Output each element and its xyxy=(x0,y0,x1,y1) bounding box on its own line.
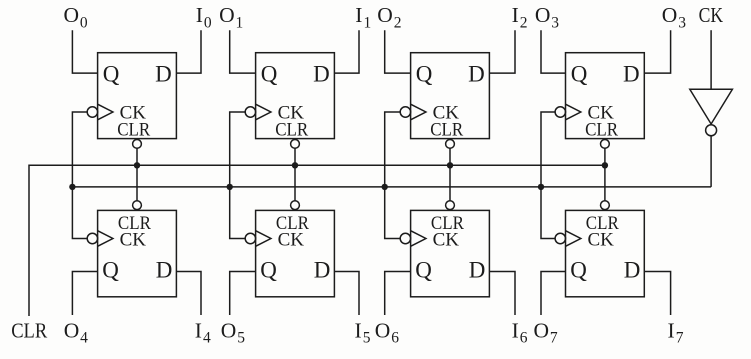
net label I1 (top) xyxy=(355,3,371,31)
svg-text:3: 3 xyxy=(551,15,559,32)
net label O5 (bottom) xyxy=(221,318,245,346)
junction node CK bus / column 2 xyxy=(382,184,388,190)
wire D pin of U6 to net I5 xyxy=(334,272,359,316)
svg-text:CLR: CLR xyxy=(117,119,150,140)
CK inversion bubble of U6 xyxy=(245,233,255,243)
flip-flop U8 body xyxy=(566,210,645,296)
wire net O2 to Q pin of U3 xyxy=(385,30,411,73)
CLR inversion bubble of U5 xyxy=(133,201,142,210)
CK inversion bubble of U1 xyxy=(87,107,97,117)
svg-text:Q: Q xyxy=(571,61,588,86)
svg-text:3: 3 xyxy=(678,15,686,32)
svg-text:6: 6 xyxy=(520,330,528,347)
svg-text:7: 7 xyxy=(676,330,684,347)
net label I7 (bottom) xyxy=(668,318,684,346)
svg-text:D: D xyxy=(469,257,486,282)
svg-text:I: I xyxy=(195,318,202,342)
wire Q pin of U7 to net O6 xyxy=(385,272,411,316)
svg-text:5: 5 xyxy=(237,330,245,347)
wire D pin of U8 to net I7 xyxy=(644,272,670,316)
svg-text:O: O xyxy=(662,3,678,27)
svg-text:2: 2 xyxy=(520,15,528,32)
junction node CLR bus / column 2 xyxy=(447,162,453,168)
svg-text:Q: Q xyxy=(570,257,587,282)
CK inversion bubble of U3 xyxy=(400,107,410,117)
svg-text:D: D xyxy=(624,257,641,282)
CK inversion bubble of U5 xyxy=(87,233,97,243)
CK inversion bubble of U2 xyxy=(245,107,255,117)
svg-text:5: 5 xyxy=(363,330,371,347)
wire CK column 0 (bus to CK pins of U1/U5) xyxy=(72,112,87,239)
svg-text:O: O xyxy=(534,318,550,342)
clock wedge of U1 xyxy=(98,104,113,120)
svg-text:I: I xyxy=(512,3,519,27)
CK inversion bubble of U4 xyxy=(555,107,565,117)
wire CK column 2 (bus to CK pins of U3/U7) xyxy=(385,112,401,239)
wire CK label to inverter U9 input xyxy=(710,30,712,89)
net label O0 (top) xyxy=(64,3,88,31)
svg-text:D: D xyxy=(623,61,640,86)
clock wedge of U4 xyxy=(566,104,581,120)
wire CLR column 3 (bus to CLR pins of U4/U8) xyxy=(604,148,606,201)
junction node CK bus / column 0 xyxy=(69,184,75,190)
net label I4 (bottom) xyxy=(195,318,211,346)
wire D pin of U1 to net I0 xyxy=(176,30,201,73)
net label O4 (bottom) xyxy=(64,318,88,346)
svg-text:0: 0 xyxy=(204,15,212,32)
CK inversion bubble of U8 xyxy=(555,233,565,243)
junction node CK bus / column 3 xyxy=(538,184,544,190)
svg-text:I: I xyxy=(512,318,519,342)
CLR inversion bubble of U4 xyxy=(601,140,610,149)
svg-text:O: O xyxy=(64,318,80,342)
wire Q pin of U8 to net O7 xyxy=(541,272,566,316)
clock wedge of U6 xyxy=(256,231,271,247)
svg-text:O: O xyxy=(221,318,237,342)
svg-text:CK: CK xyxy=(699,3,724,27)
net label O7 (bottom) xyxy=(534,318,558,346)
net label I5 (bottom) xyxy=(355,318,371,346)
net label I2 (top) xyxy=(512,3,528,31)
net label O6 (bottom) xyxy=(375,318,399,346)
inverter U9 triangle xyxy=(690,89,733,124)
svg-text:4: 4 xyxy=(80,330,88,347)
clock wedge of U7 xyxy=(411,231,426,247)
flip-flop U2 body xyxy=(256,53,335,139)
flip-flop U5 body xyxy=(98,210,177,296)
svg-text:D: D xyxy=(156,257,173,282)
wire CLR column 2 (bus to CLR pins of U3/U7) xyxy=(449,148,451,201)
net label O3 (top) xyxy=(662,3,686,31)
svg-text:CLR: CLR xyxy=(11,318,48,342)
net label I0 (top) xyxy=(196,3,212,31)
svg-text:Q: Q xyxy=(103,61,120,86)
wire D pin of U4 to net O3 xyxy=(644,30,670,73)
wire CK bus (net CKI) xyxy=(72,186,711,188)
svg-text:D: D xyxy=(155,61,172,86)
wire D pin of U7 to net I6 xyxy=(489,272,515,316)
svg-text:I: I xyxy=(355,318,362,342)
svg-text:CLR: CLR xyxy=(275,119,308,140)
wire Q pin of U6 to net O5 xyxy=(230,272,256,316)
svg-text:CK: CK xyxy=(588,230,615,251)
junction node CLR bus / column 3 xyxy=(602,162,608,168)
wire CLR bus (net CLR) xyxy=(29,165,605,316)
wire net O1 to Q pin of U2 xyxy=(230,30,256,73)
svg-text:O: O xyxy=(375,318,391,342)
svg-text:1: 1 xyxy=(236,15,244,32)
wire CK column 1 (bus to CK pins of U2/U6) xyxy=(230,112,246,239)
svg-text:CK: CK xyxy=(278,230,305,251)
junction node CK bus / column 1 xyxy=(227,184,233,190)
svg-text:CK: CK xyxy=(120,230,147,251)
flip-flop U3 body xyxy=(411,53,490,139)
flip-flop U4 body xyxy=(566,53,645,139)
CLR inversion bubble of U6 xyxy=(291,201,300,210)
svg-text:Q: Q xyxy=(102,257,119,282)
svg-text:I: I xyxy=(355,3,362,27)
flip-flop U6 body xyxy=(256,210,335,296)
wire D pin of U2 to net I1 xyxy=(334,30,359,73)
junction node CLR bus / column 0 xyxy=(134,162,140,168)
junction node CLR bus / column 1 xyxy=(292,162,298,168)
svg-text:CLR: CLR xyxy=(430,119,463,140)
svg-text:D: D xyxy=(313,61,330,86)
svg-text:Q: Q xyxy=(260,257,277,282)
CLR inversion bubble of U3 xyxy=(446,140,455,149)
wire net O3 to Q pin of U4 xyxy=(541,30,566,73)
wire CLR column 1 (bus to CLR pins of U2/U6) xyxy=(294,148,296,201)
svg-text:Q: Q xyxy=(416,61,433,86)
wire Q pin of U5 to net O4 xyxy=(72,272,97,316)
wire net O0 to Q pin of U1 xyxy=(72,30,97,73)
svg-text:1: 1 xyxy=(364,15,372,32)
svg-text:I: I xyxy=(196,3,203,27)
svg-text:I: I xyxy=(668,318,675,342)
svg-text:CK: CK xyxy=(433,230,460,251)
inverter U9 output bubble xyxy=(706,125,717,136)
svg-text:6: 6 xyxy=(391,330,399,347)
flip-flop U7 body xyxy=(411,210,490,296)
svg-text:0: 0 xyxy=(80,15,88,32)
svg-text:Q: Q xyxy=(261,61,278,86)
CLR inversion bubble of U1 xyxy=(133,140,142,149)
svg-text:4: 4 xyxy=(203,330,211,347)
svg-text:7: 7 xyxy=(550,330,558,347)
svg-text:O: O xyxy=(64,3,80,27)
net label I6 (bottom) xyxy=(512,318,528,346)
wire inverter U9 output to CK bus xyxy=(710,136,712,187)
clock wedge of U2 xyxy=(256,104,271,120)
net label O1 (top) xyxy=(219,3,243,31)
CLR inversion bubble of U2 xyxy=(291,140,300,149)
clock wedge of U3 xyxy=(411,104,426,120)
svg-text:Q: Q xyxy=(415,257,432,282)
wire D pin of U5 to net I4 xyxy=(176,272,201,316)
CLR inversion bubble of U7 xyxy=(446,201,455,210)
svg-text:O: O xyxy=(219,3,235,27)
svg-text:CLR: CLR xyxy=(585,119,618,140)
svg-text:D: D xyxy=(314,257,331,282)
net label O2 (top) xyxy=(377,3,401,31)
svg-text:O: O xyxy=(377,3,393,27)
flip-flop U1 body xyxy=(98,53,177,139)
svg-text:D: D xyxy=(468,61,485,86)
svg-text:2: 2 xyxy=(394,15,402,32)
clock wedge of U5 xyxy=(98,231,113,247)
clock wedge of U8 xyxy=(566,231,581,247)
CK inversion bubble of U7 xyxy=(400,233,410,243)
CLR inversion bubble of U8 xyxy=(601,201,610,210)
wire CK column 3 (bus to CK pins of U4/U8) xyxy=(541,112,555,239)
svg-text:O: O xyxy=(535,3,551,27)
wire CLR column 0 (bus to CLR pins of U1/U5) xyxy=(136,148,138,201)
net label O3 (top) xyxy=(535,3,559,31)
wire D pin of U3 to net I2 xyxy=(489,30,515,73)
